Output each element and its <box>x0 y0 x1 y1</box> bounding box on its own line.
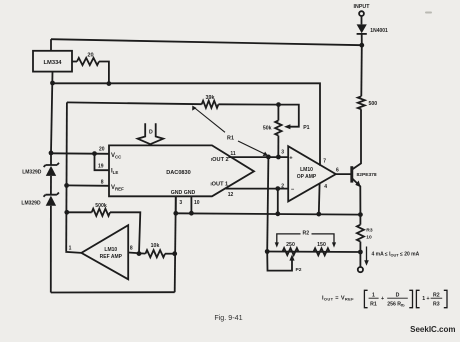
node LM334 bottom junction <box>50 81 55 86</box>
svg-text:P2: P2 <box>296 267 302 273</box>
DAC GND pin 10 stub <box>190 196 192 213</box>
svg-text:−: − <box>291 187 295 193</box>
resistor 39k <box>202 101 219 108</box>
node ground riser / GND rail junction <box>173 211 178 216</box>
output terminal circle <box>358 267 363 272</box>
wire op-amp pin 4 to GND rail <box>318 184 321 215</box>
wire bottom return rail <box>51 291 175 293</box>
output current arrow <box>366 247 368 263</box>
R2 dimension bracket right <box>312 234 335 244</box>
node 500k left junction <box>64 210 69 215</box>
P2 wiper loop <box>267 252 292 271</box>
R2 dimension bracket left <box>277 234 301 244</box>
node R2 left junction <box>265 249 270 254</box>
svg-text:D: D <box>396 292 400 298</box>
resistor R3 10 <box>359 215 361 225</box>
resistor 20 ohm lead <box>72 61 77 63</box>
node REF AMP output junction <box>137 251 142 256</box>
node minus input junction <box>275 186 280 191</box>
svg-text:12: 12 <box>228 192 234 198</box>
wire ref amp pin 1 <box>66 252 81 253</box>
formula Iout equation <box>322 290 447 307</box>
svg-text:4: 4 <box>324 184 327 190</box>
svg-text:DAC0830: DAC0830 <box>166 170 191 176</box>
svg-text:D: D <box>149 129 153 135</box>
zener diode LM329D D2 (upper) <box>44 153 59 195</box>
ref-amp U4 LM10 body <box>81 225 128 279</box>
R2 bracket left arrowhead <box>275 242 279 247</box>
svg-text:R1: R1 <box>370 301 377 307</box>
svg-text:R1: R1 <box>227 136 234 142</box>
wire rail B (LM334 bottom to op-amp V+) <box>53 83 321 166</box>
svg-text:3: 3 <box>281 149 284 155</box>
svg-text:R3: R3 <box>433 301 440 307</box>
P2 wiper arrowhead <box>289 254 294 260</box>
node V_REF stub junction <box>64 183 69 188</box>
digital input D arrow <box>138 123 164 144</box>
wire IOUT1 (pin 12) to op-amp - <box>226 188 289 190</box>
wire 39k to P1 top <box>218 103 278 105</box>
node op-amp pin4 junction <box>316 212 321 217</box>
svg-text:LM329D: LM329D <box>22 169 42 175</box>
svg-text:+: + <box>381 296 384 302</box>
svg-text:3: 3 <box>179 200 182 206</box>
svg-text:8: 8 <box>130 245 133 251</box>
svg-text:LM329D: LM329D <box>21 200 41 206</box>
P1 wiper arrowhead <box>284 124 290 129</box>
svg-text:50k: 50k <box>263 125 272 131</box>
wire ref amp output <box>128 253 145 254</box>
R2 bracket right arrowhead <box>332 242 336 247</box>
svg-text:SeekIC.com: SeekIC.com <box>410 325 455 334</box>
wire resistor 20 to rail B <box>99 62 109 84</box>
svg-text:7: 7 <box>323 158 326 164</box>
wire V_REF riser (pin 8 node) <box>65 102 68 251</box>
wire left vertical LM334 to zeners <box>51 72 53 153</box>
wire GND rail <box>176 213 361 214</box>
wire R2 rail <box>267 251 360 254</box>
svg-text:10: 10 <box>366 234 372 240</box>
R1 leader line upper segment <box>194 107 226 132</box>
wire 500k right to output node <box>110 212 140 253</box>
svg-text:6: 6 <box>336 167 339 173</box>
resistor 500 leads <box>360 45 363 96</box>
wire LM334 top lead <box>50 39 52 51</box>
wire minus input to GND rail <box>277 189 279 214</box>
resistor 500k <box>92 209 110 216</box>
input terminal <box>359 11 364 16</box>
resistor 150 <box>314 248 330 255</box>
svg-text:4 mA ≤ IOUT ≤ 20 mA: 4 mA ≤ IOUT ≤ 20 mA <box>372 251 420 257</box>
svg-text:10: 10 <box>194 200 200 206</box>
potentiometer P2 250 <box>283 248 299 255</box>
svg-text:1: 1 <box>69 245 72 251</box>
node Vcc tap on zener stack <box>49 151 54 156</box>
transistor Q1 emitter <box>352 179 360 215</box>
R1 leader upper arrowhead <box>192 106 196 111</box>
svg-text:82PE378: 82PE378 <box>357 172 377 178</box>
LM334 current source U3 <box>33 51 72 72</box>
zener diode LM329D D3 (lower) <box>44 193 59 293</box>
node emitter R3 top junction <box>358 212 363 217</box>
node ground riser / 10k junction <box>172 251 177 256</box>
svg-text:150: 150 <box>317 242 326 248</box>
svg-text:ILE: ILE <box>111 169 118 176</box>
svg-text:INPUT: INPUT <box>354 4 371 10</box>
wire 500k rail <box>67 211 92 213</box>
wire Vcc feed to DAC pin 20 <box>51 152 109 155</box>
svg-text:250: 250 <box>286 242 295 248</box>
wire R1 rail left segment <box>67 102 202 104</box>
wire top supply rail <box>51 39 362 45</box>
svg-text:1: 1 <box>372 292 375 298</box>
potentiometer P1 50k body <box>277 105 279 121</box>
wire ground riser x=175 <box>175 196 176 292</box>
resistor 500 <box>358 96 365 109</box>
svg-text:OP AMP: OP AMP <box>297 174 317 180</box>
svg-text:19: 19 <box>98 163 104 169</box>
wire IOUT2 (pin 11) to op-amp + <box>228 156 288 158</box>
svg-text:20: 20 <box>87 53 93 59</box>
node GND pin 10 junction <box>189 211 194 216</box>
svg-text:LM10: LM10 <box>300 167 313 173</box>
wire R1/R2 vertical (plus node to R2 left) <box>267 157 268 252</box>
svg-text:IOUT 1: IOUT 1 <box>211 182 229 188</box>
node P1 top junction <box>276 102 281 107</box>
diode CR1 1N4001 <box>361 16 363 24</box>
op-amp U1 LM10 body <box>288 146 336 201</box>
svg-text:VREF: VREF <box>111 185 124 192</box>
wire 10k to ground riser <box>165 253 175 255</box>
svg-text:LM334: LM334 <box>43 60 62 66</box>
node ILE loop tap <box>92 151 97 156</box>
svg-text:R2: R2 <box>433 292 440 298</box>
R1 leader line lower segment <box>238 141 265 154</box>
node minus-feedback junction <box>275 211 280 216</box>
DAC U2 DAC0830 body <box>109 145 254 196</box>
svg-text:VCC: VCC <box>111 153 122 160</box>
resistor 10k <box>145 250 165 257</box>
node 20-ohm to rail B <box>107 81 112 86</box>
transistor Q1 base bar <box>350 166 353 182</box>
svg-text:IOUT 2: IOUT 2 <box>211 157 229 163</box>
scan smudge mark <box>425 12 432 14</box>
wire ILE loop to DAC pin 19 <box>95 154 110 171</box>
node P1 bottom junction <box>276 155 281 160</box>
svg-text:1 +: 1 + <box>422 296 429 302</box>
svg-text:39k: 39k <box>206 95 215 101</box>
svg-text:R3: R3 <box>366 227 373 233</box>
wire R3 bottom to output terminal <box>359 252 361 267</box>
svg-text:20: 20 <box>99 146 105 152</box>
DAC GND pin 3 stub <box>175 196 177 213</box>
transistor Q1 collector <box>352 110 361 169</box>
svg-text:Fig. 9-41: Fig. 9-41 <box>214 313 242 322</box>
svg-text:500k: 500k <box>95 203 107 209</box>
svg-text:500: 500 <box>369 101 378 107</box>
transistor Q1 emitter arrowhead <box>355 181 361 188</box>
svg-text:10k: 10k <box>151 243 160 249</box>
wire op-amp output to transistor base <box>336 173 352 175</box>
wire P1 wiper loop <box>278 105 298 127</box>
resistor 20 ohm <box>77 58 99 65</box>
svg-text:GND GND: GND GND <box>171 190 196 196</box>
svg-text:1N4001: 1N4001 <box>370 28 388 34</box>
R1 leader lower arrowhead <box>263 152 268 156</box>
wire V_REF pin 8 stub <box>67 184 109 186</box>
svg-text:2: 2 <box>281 184 284 190</box>
svg-text:REF AMP: REF AMP <box>100 254 123 260</box>
svg-text:8: 8 <box>101 179 104 185</box>
node R3 bottom junction <box>358 250 363 255</box>
node R1 bottom junction <box>266 155 271 160</box>
svg-text:IOUT = VREF: IOUT = VREF <box>322 295 354 301</box>
node junction top rail to diode/500 resistor <box>359 43 364 48</box>
svg-text:P1: P1 <box>303 125 309 131</box>
svg-text:R2: R2 <box>302 231 309 237</box>
svg-text:LM10: LM10 <box>104 247 117 253</box>
